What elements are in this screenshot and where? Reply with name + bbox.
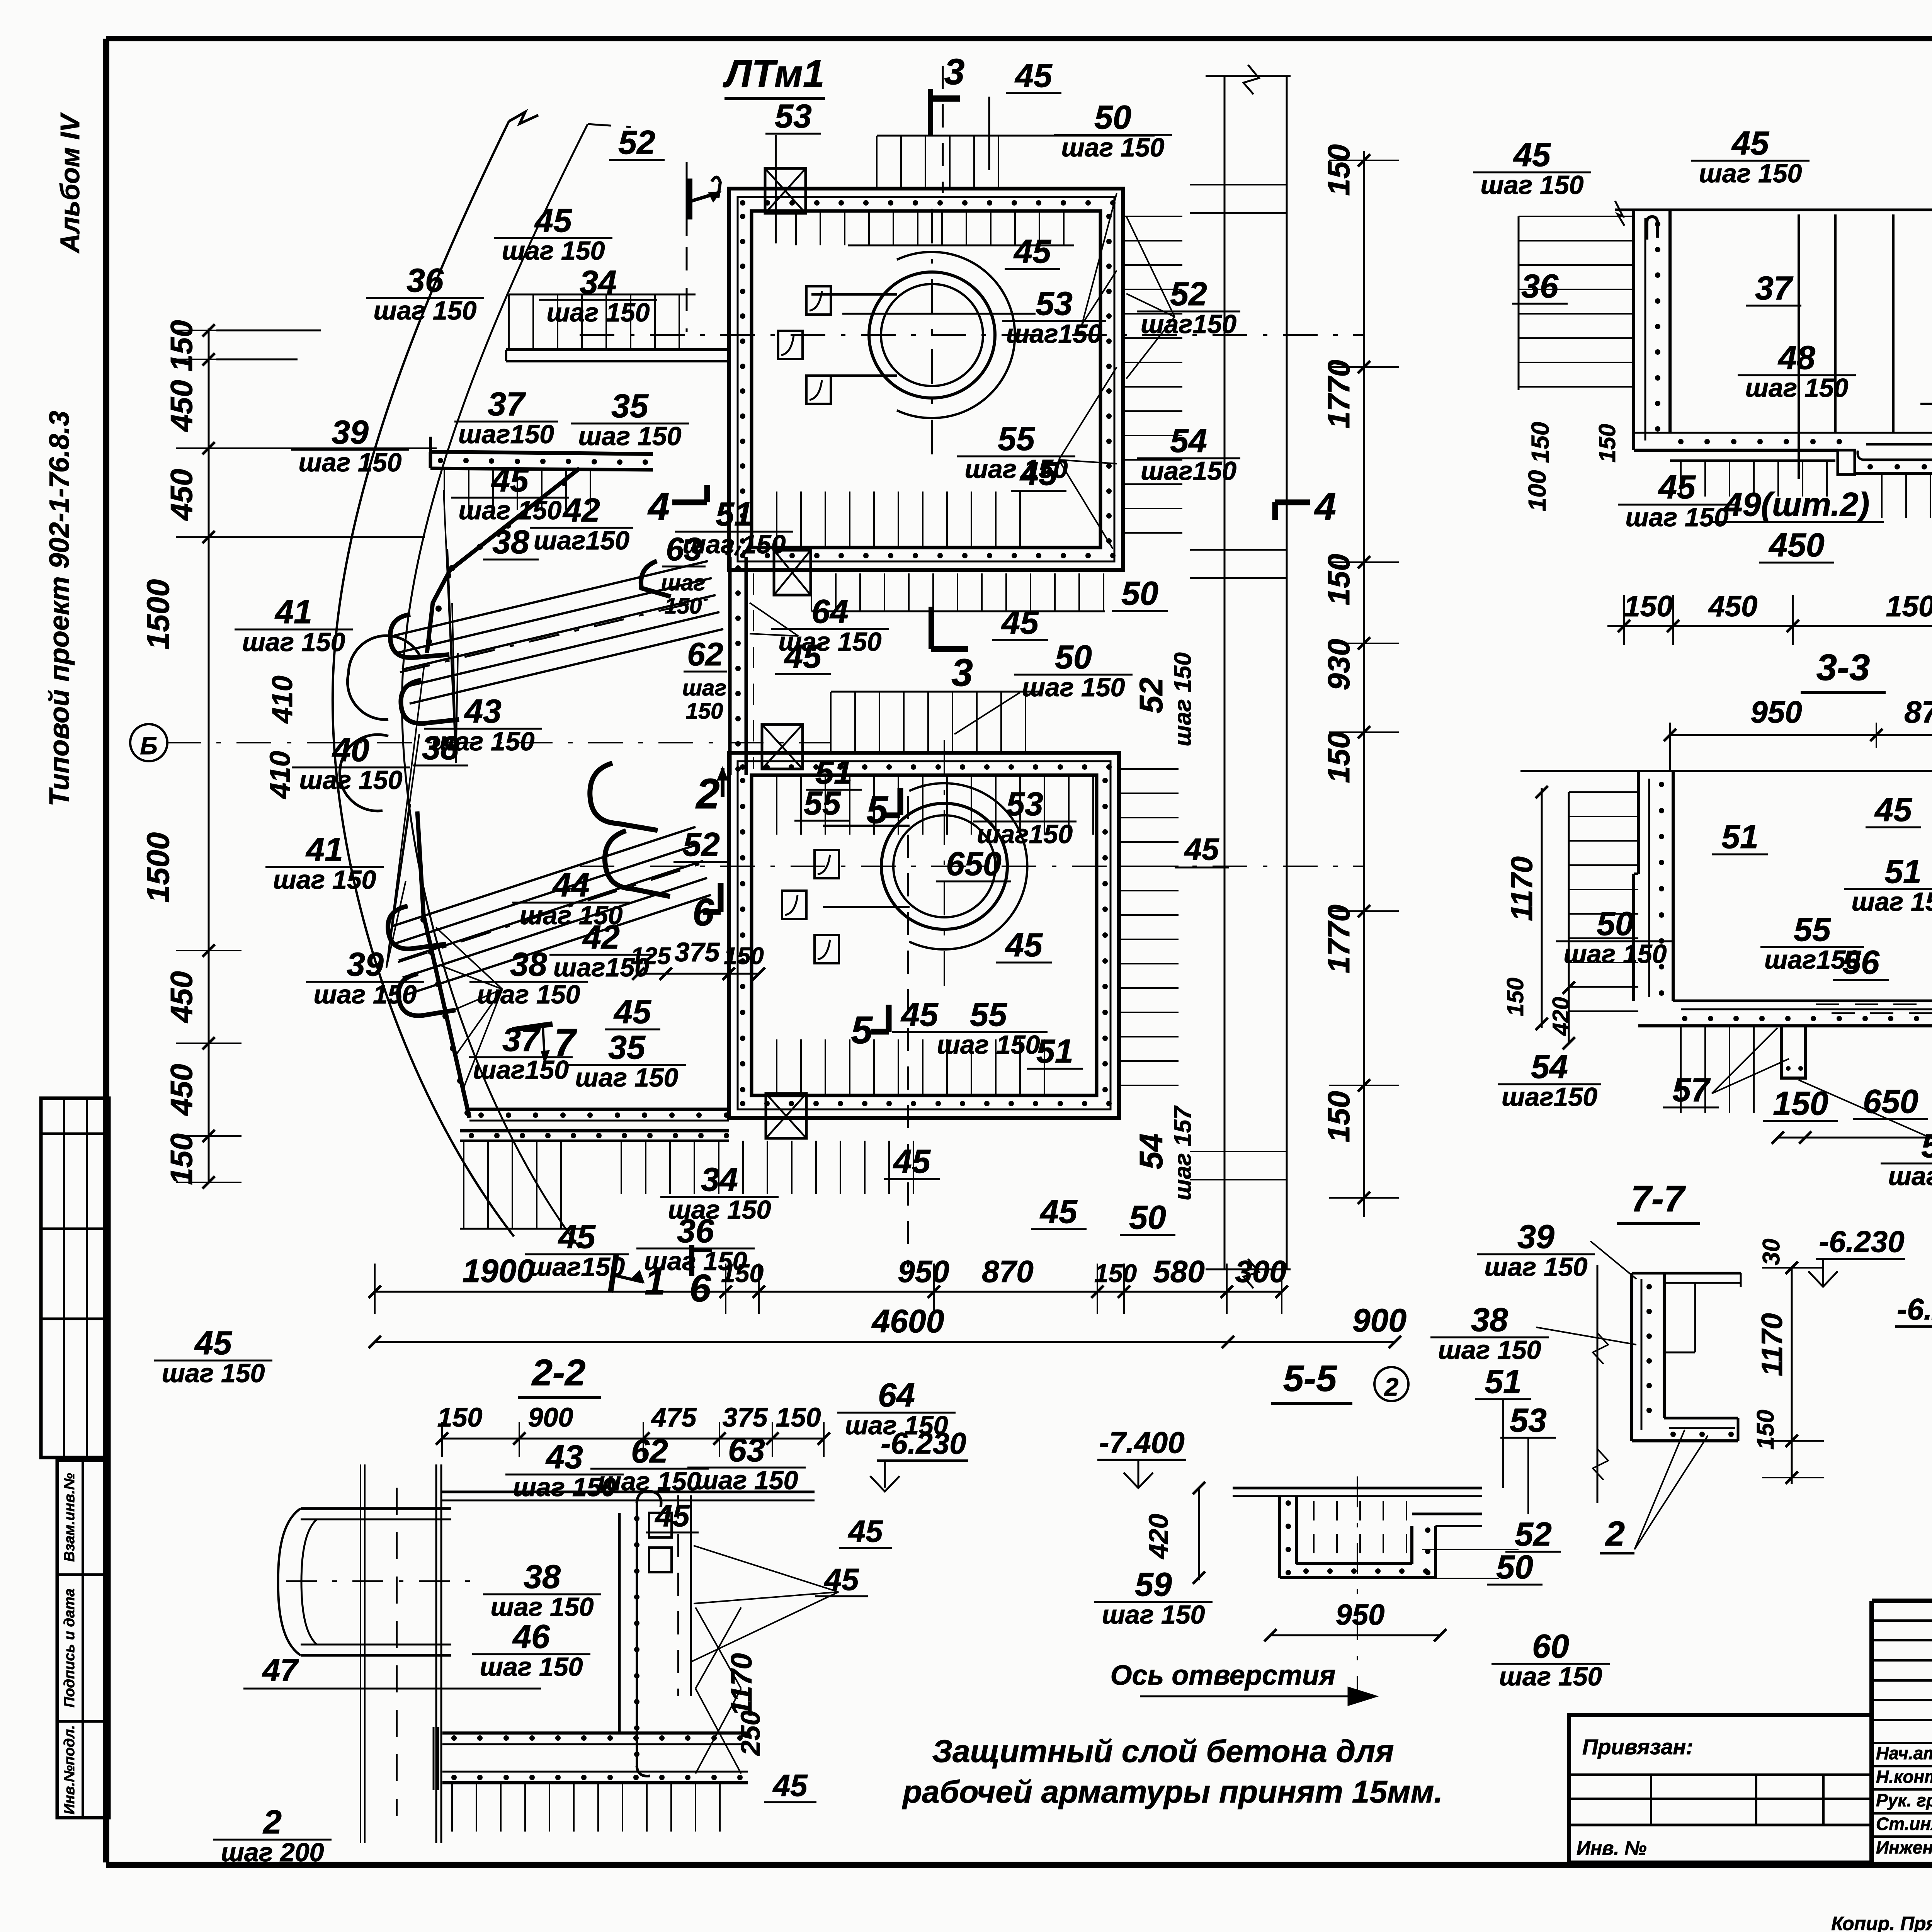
3-3 top dims: [1664, 695, 1932, 771]
1-1 floor rebar dots: [1678, 439, 1932, 444]
svg-text:шаг 150: шаг 150: [299, 765, 403, 795]
2-2 bottom slab: [434, 1727, 748, 1790]
svg-text:950: 950: [898, 1254, 949, 1289]
leader fan 39: [386, 665, 424, 968]
svg-text:58: 58: [1921, 1128, 1932, 1165]
section flag 4 right: [1275, 485, 1336, 528]
3-3 wall top step: [1634, 874, 1638, 1001]
axis Б: [130, 724, 831, 761]
svg-text:1900: 1900: [463, 1253, 535, 1289]
svg-text:39: 39: [347, 946, 384, 983]
lower box inner wall face: [752, 775, 1097, 1095]
svg-text:шаг: шаг: [682, 675, 727, 701]
comb below bottom band left: [460, 1141, 583, 1229]
svg-text:шаг 150: шаг 150: [937, 1030, 1040, 1060]
5-5 leader lines: [1422, 1399, 1528, 1578]
2-2 bottom comb: [451, 1783, 453, 1832]
svg-text:45: 45: [1013, 233, 1051, 270]
svg-text:45: 45: [1014, 57, 1053, 94]
svg-text:52: 52: [1133, 677, 1169, 713]
svg-text:4600: 4600: [871, 1303, 944, 1339]
lower ramp slab lines: [391, 827, 711, 995]
svg-text:шаг 150: шаг 150: [314, 980, 417, 1009]
svg-text:375: 375: [723, 1402, 768, 1432]
section flag 1 bottom: [611, 1254, 665, 1303]
stepped wall with rebar dots upper: [426, 468, 580, 653]
svg-text:рабочей арматуры принят 15мм.: рабочей арматуры принят 15мм.: [902, 1774, 1443, 1810]
svg-text:Рук. гр.: Рук. гр.: [1876, 1790, 1932, 1810]
svg-text:49(шт.2): 49(шт.2): [1723, 486, 1869, 523]
svg-text:150: 150: [164, 1133, 199, 1185]
upper box wall rebar dots: [740, 200, 1116, 558]
svg-text:-6.230: -6.230: [1897, 1292, 1932, 1326]
svg-text:5: 5: [851, 1009, 873, 1052]
svg-text:150: 150: [665, 594, 702, 619]
svg-text:4: 4: [1314, 485, 1336, 528]
svg-text:410: 410: [266, 675, 298, 724]
svg-text:45: 45: [1731, 125, 1769, 162]
svg-text:52: 52: [1170, 276, 1207, 313]
svg-text:43: 43: [545, 1439, 583, 1476]
1-1 centre deepened slab: [1855, 444, 1932, 473]
1-1 floor slab: [1634, 433, 1932, 461]
6-6 level mark: [1895, 1292, 1932, 1364]
horizontal helper line at 150: [216, 330, 321, 332]
leader fan 53 upper: [1082, 193, 1117, 325]
2-2 wall cross braces: [696, 1607, 741, 1774]
upper ramp hook rebars: [390, 614, 449, 658]
7-7 level mark: [1808, 1225, 1905, 1287]
svg-text:шаг 150: шаг 150: [1102, 1600, 1205, 1629]
svg-text:50: 50: [1597, 905, 1634, 942]
section flag 7 plan: [512, 1021, 577, 1064]
svg-text:150: 150: [1321, 1091, 1356, 1142]
stringer hook rebar B: [605, 831, 670, 896]
svg-text:450: 450: [1708, 590, 1758, 623]
svg-text:870: 870: [982, 1254, 1033, 1289]
svg-text:150: 150: [1321, 731, 1356, 783]
left wall continuation: [726, 546, 749, 775]
top-left wall band upper: [506, 350, 729, 361]
svg-text:шаг 150: шаг 150: [374, 296, 477, 325]
svg-text:шаг 150: шаг 150: [1626, 503, 1729, 532]
svg-text:1: 1: [645, 1261, 665, 1303]
svg-text:48: 48: [1777, 339, 1815, 376]
comb below bottom band right: [621, 1141, 622, 1194]
svg-text:41: 41: [305, 831, 343, 868]
upper ramp slab lines: [394, 561, 723, 704]
svg-text:шаг 150: шаг 150: [299, 448, 402, 477]
svg-text:шаг 150: шаг 150: [1499, 1662, 1602, 1691]
right vertical dimension line A: [1225, 76, 1287, 1269]
plan bottom dimension row 1: [369, 1264, 1288, 1314]
curve top break mark: [509, 112, 538, 124]
7-7 mark 2: [1600, 1430, 1708, 1553]
svg-text:57: 57: [1672, 1071, 1711, 1109]
svg-text:Защитный слой бетона для: Защитный слой бетона для: [932, 1734, 1394, 1769]
svg-text:шаг 150: шаг 150: [1564, 939, 1667, 969]
svg-text:шаг 150: шаг 150: [459, 496, 562, 525]
3-3 leader 57: [1712, 1059, 1789, 1094]
embedded plate 2: [778, 331, 803, 359]
leader fan 38 lower: [436, 927, 502, 989]
svg-text:150: 150: [1773, 1085, 1828, 1122]
svg-text:45: 45: [824, 1562, 859, 1597]
svg-text:50: 50: [1055, 639, 1092, 676]
svg-text:900: 900: [528, 1402, 573, 1432]
svg-text:-6.230: -6.230: [881, 1426, 966, 1460]
svg-text:50: 50: [1496, 1549, 1533, 1586]
svg-text:60: 60: [1532, 1628, 1569, 1665]
svg-text:шаг 150: шаг 150: [578, 422, 682, 451]
embedded plate 1: [806, 286, 831, 315]
svg-text:1170: 1170: [725, 1653, 758, 1716]
svg-text:шаг 150: шаг 150: [1061, 133, 1165, 162]
leader fan 55 upper: [1059, 367, 1117, 460]
svg-text:36: 36: [1521, 268, 1559, 305]
svg-text:52: 52: [618, 124, 655, 161]
svg-text:150: 150: [1502, 978, 1528, 1016]
section 5-5 title: [1271, 1358, 1352, 1403]
svg-text:-7.400: -7.400: [1099, 1425, 1184, 1459]
svg-text:Ст.инж.: Ст.инж.: [1876, 1814, 1932, 1834]
svg-text:475: 475: [651, 1402, 697, 1432]
title block grid: [1872, 1601, 1932, 1862]
svg-text:150: 150: [1594, 424, 1620, 463]
embedded plate 6: [815, 935, 839, 963]
embedded plate 3: [806, 376, 831, 404]
svg-text:45: 45: [1001, 604, 1039, 641]
svg-text:шаг 150: шаг 150: [668, 1195, 771, 1225]
svg-text:450: 450: [164, 469, 199, 521]
svg-text:шаг 150: шаг 150: [273, 865, 376, 895]
svg-text:1170: 1170: [1505, 856, 1539, 921]
svg-text:Привязан:: Привязан:: [1582, 1735, 1693, 1759]
3-3 leader V 58: [1799, 1080, 1932, 1142]
svg-text:35: 35: [608, 1029, 646, 1066]
bracket hook D: [641, 561, 671, 597]
section 3-3 title: [1801, 647, 1886, 692]
svg-text:2-2: 2-2: [531, 1352, 586, 1393]
svg-text:410: 410: [264, 751, 296, 799]
leader fan 52 upper: [1126, 216, 1175, 317]
svg-text:45: 45: [194, 1325, 232, 1362]
column cross square 4: [766, 1094, 806, 1138]
svg-text:150: 150: [1321, 144, 1356, 196]
signature stamp box: [57, 1460, 109, 1818]
svg-text:3-3: 3-3: [1816, 647, 1870, 688]
3-3 left comb: [1569, 792, 1638, 1024]
svg-text:62: 62: [687, 636, 723, 672]
svg-text:30: 30: [1758, 1239, 1785, 1265]
svg-text:шаг 150: шаг 150: [1022, 673, 1125, 702]
svg-text:шаг: шаг: [661, 570, 706, 595]
svg-text:Нач.атд.: Нач.атд.: [1876, 1743, 1932, 1763]
svg-text:Н.контр.: Н.контр.: [1876, 1767, 1932, 1787]
left vertical dimension chain: [176, 324, 241, 1189]
svg-text:шаг150: шаг150: [1006, 319, 1102, 349]
5-5 top slab lines: [1233, 1488, 1482, 1496]
svg-text:46: 46: [512, 1618, 550, 1655]
svg-text:шаг150: шаг150: [458, 420, 554, 449]
svg-text:35: 35: [611, 388, 649, 425]
plan bottom dimension row 2: [369, 1336, 1401, 1348]
upper surround ledge lines: [811, 293, 897, 296]
5-5 trough hatch dashes: [1314, 1501, 1406, 1561]
svg-text:54: 54: [1133, 1133, 1169, 1169]
svg-text:38: 38: [1471, 1301, 1508, 1338]
svg-text:шаг 150: шаг 150: [162, 1359, 265, 1388]
svg-text:42: 42: [562, 492, 600, 529]
svg-text:150: 150: [724, 943, 764, 969]
svg-text:Б: Б: [140, 732, 157, 760]
1-1 break marks: [1615, 201, 1624, 226]
svg-text:шаг150: шаг150: [1141, 310, 1236, 339]
svg-text:55: 55: [998, 420, 1035, 457]
svg-text:50: 50: [1129, 1199, 1166, 1236]
svg-text:1500: 1500: [1886, 590, 1932, 623]
leader fan 38 upper: [444, 490, 456, 763]
upper opening circle: [869, 272, 995, 398]
2-2 hole sleeve verticals: [361, 1464, 441, 1843]
section flag 3 mid: [931, 607, 973, 694]
svg-text:45: 45: [1658, 469, 1696, 506]
svg-text:шаг 150: шаг 150: [477, 980, 580, 1009]
3-3 bottom comb: [1680, 1026, 1682, 1113]
1-1 rebar 46 line: [1920, 403, 1932, 405]
svg-text:64: 64: [878, 1377, 915, 1414]
svg-text:100: 100: [1523, 470, 1551, 512]
svg-text:52: 52: [683, 826, 720, 863]
svg-text:41: 41: [274, 594, 312, 631]
svg-text:950: 950: [1750, 695, 1802, 729]
comb above upper box: [877, 136, 1155, 189]
svg-text:шаг150: шаг150: [977, 820, 1073, 849]
embedded plate 4: [815, 850, 839, 878]
lower surround ledge lines: [823, 825, 910, 827]
svg-text:3: 3: [951, 651, 973, 694]
1-1 left exterior comb: [1519, 216, 1634, 390]
comb below lower band: [444, 470, 445, 510]
revision stamp box: [41, 1098, 109, 1458]
svg-text:36: 36: [406, 262, 444, 299]
svg-text:45: 45: [1005, 927, 1043, 964]
svg-text:55: 55: [804, 785, 841, 822]
svg-text:63: 63: [666, 531, 702, 567]
stringer hook rebar A: [590, 763, 658, 830]
svg-text:шаг 150: шаг 150: [502, 236, 605, 265]
comb above top-left band: [509, 294, 696, 350]
upper box outer wall: [729, 189, 1123, 570]
leader 64: [750, 603, 798, 636]
svg-text:1500: 1500: [141, 579, 176, 650]
52 leader vertical: [686, 162, 688, 236]
7-7 slab: [1632, 1418, 1738, 1441]
section 2-2 title: [518, 1352, 601, 1398]
5-5 dim 420: [1143, 1482, 1205, 1584]
2-2 top dim chain: [436, 1422, 830, 1457]
svg-text:45: 45: [655, 1498, 690, 1533]
2-2 label 47: [243, 1653, 541, 1689]
svg-text:шаг 150: шаг 150: [1699, 159, 1802, 188]
privyazan box: [1569, 1715, 1872, 1862]
svg-text:2: 2: [695, 770, 719, 818]
column cross square 1: [765, 168, 806, 213]
svg-text:55: 55: [1794, 911, 1831, 948]
svg-text:62: 62: [631, 1433, 668, 1470]
svg-text:6: 6: [689, 1267, 711, 1310]
3-3 keys: [1781, 1026, 1932, 1078]
svg-text:38: 38: [510, 946, 547, 983]
svg-text:38: 38: [492, 524, 529, 561]
3-3 dim line below keys: [1772, 1131, 1932, 1144]
svg-text:53: 53: [1510, 1402, 1547, 1439]
upper box inner wall face: [752, 211, 1100, 548]
1-1 left wall: [1634, 210, 1670, 450]
5-5 axis label: [1111, 1476, 1376, 1705]
vertical centerline upper circle: [931, 209, 933, 468]
lower box wall rebar dots: [740, 764, 1112, 1106]
top-left wall band lower: [430, 437, 653, 470]
callout 62 stacked: [682, 636, 727, 724]
bottom band extension upper: [469, 1109, 729, 1121]
svg-text:шаг 200: шаг 200: [221, 1838, 324, 1867]
svg-text:55: 55: [970, 996, 1007, 1033]
svg-text:6: 6: [692, 891, 714, 934]
svg-text:150: 150: [1321, 554, 1356, 605]
svg-text:45: 45: [491, 462, 529, 499]
svg-text:52: 52: [1515, 1516, 1552, 1553]
svg-text:Подпись и дата: Подпись и дата: [61, 1588, 78, 1708]
svg-text:шаг150: шаг150: [1141, 456, 1236, 486]
svg-text:шаг 150: шаг 150: [1481, 170, 1584, 200]
svg-text:64: 64: [811, 593, 849, 630]
7-7 wall: [1632, 1273, 1673, 1441]
stepped wall lower diagonal: [417, 811, 471, 1118]
svg-text:Инв.№подл.: Инв.№подл.: [61, 1725, 78, 1814]
svg-text:39: 39: [1517, 1218, 1554, 1255]
upper box interior line 45: [842, 313, 1036, 315]
svg-text:950: 950: [1336, 1599, 1385, 1631]
3-3 floor slab: [1638, 1001, 1932, 1026]
svg-text:50: 50: [1121, 575, 1158, 612]
svg-text:150: 150: [164, 320, 199, 371]
svg-text:150: 150: [437, 1402, 483, 1432]
lower opening circle: [881, 803, 1007, 929]
svg-text:45: 45: [900, 996, 939, 1033]
svg-text:650: 650: [946, 845, 1002, 883]
svg-text:шаг 150: шаг 150: [1485, 1252, 1588, 1282]
svg-text:150: 150: [686, 699, 723, 724]
svg-text:45: 45: [613, 993, 651, 1031]
comb lower box interior top: [776, 775, 777, 835]
section flag 2 left: [695, 768, 727, 818]
column cross square 2: [774, 550, 811, 595]
svg-text:54: 54: [1531, 1048, 1568, 1085]
1-1 wall top hooks: [1647, 217, 1657, 240]
3-3 left wall: [1638, 771, 1673, 1001]
svg-text:1500: 1500: [141, 832, 176, 903]
svg-text:2: 2: [1605, 1515, 1625, 1553]
2-2 wall: [619, 1491, 691, 1776]
column cross square 3: [762, 724, 803, 769]
lower ramp hook rebars: [388, 906, 446, 949]
comb upper box interior bottom: [776, 492, 777, 548]
2-2 pipe: [278, 1509, 475, 1655]
svg-text:1170: 1170: [1756, 1313, 1789, 1376]
svg-text:51: 51: [716, 496, 753, 533]
section 7-7 title: [1617, 1178, 1700, 1224]
svg-text:1770: 1770: [1321, 905, 1356, 973]
svg-text:51: 51: [1884, 853, 1922, 890]
svg-text:2: 2: [1384, 1372, 1399, 1401]
svg-text:1770: 1770: [1321, 360, 1356, 429]
svg-text:45: 45: [534, 202, 572, 239]
leader 50 lower: [954, 692, 1020, 734]
2-2 anchor squares: [649, 1513, 672, 1572]
svg-text:450: 450: [164, 380, 199, 432]
svg-text:53: 53: [775, 98, 812, 135]
5-5 level mark -7.400: [1097, 1425, 1186, 1488]
svg-text:53: 53: [1036, 285, 1073, 322]
svg-text:шаг150: шаг150: [534, 526, 629, 555]
svg-text:45: 45: [848, 1514, 883, 1548]
svg-text:580: 580: [1153, 1254, 1204, 1289]
svg-text:51: 51: [1036, 1033, 1073, 1070]
svg-text:37: 37: [488, 386, 526, 423]
svg-text:Ось отверстия: Ось отверстия: [1111, 1660, 1336, 1691]
5-5 circled 2: [1374, 1367, 1408, 1401]
inner curved wall line: [402, 124, 588, 1248]
svg-text:5-5: 5-5: [1283, 1358, 1337, 1399]
callout 63 stacked: [661, 531, 706, 619]
svg-text:шаг150: шаг150: [1502, 1082, 1597, 1112]
svg-text:51: 51: [1485, 1363, 1522, 1400]
svg-text:650: 650: [1863, 1083, 1918, 1120]
svg-text:375: 375: [675, 937, 720, 967]
dims 125 375 150: [631, 937, 765, 980]
svg-text:930: 930: [1321, 639, 1356, 690]
svg-text:56: 56: [1842, 944, 1880, 981]
7-7 right dim line: [1762, 1262, 1824, 1484]
svg-text:34: 34: [701, 1161, 738, 1198]
svg-text:37: 37: [1755, 270, 1794, 307]
svg-text:45: 45: [784, 638, 822, 675]
3-3 center trench dashes: [1816, 1004, 1932, 1013]
1-1 interior wall edges: [1799, 214, 1932, 479]
section cut line 3: [942, 66, 944, 193]
svg-text:5: 5: [866, 788, 888, 832]
2-2 top slab: [442, 1492, 815, 1500]
svg-text:7-7: 7-7: [1631, 1178, 1686, 1219]
svg-text:шаг 150: шаг 150: [491, 1592, 594, 1622]
svg-text:39: 39: [332, 414, 369, 451]
svg-text:Типовой проект 902-1-76.8.3: Типовой проект 902-1-76.8.3: [44, 411, 75, 806]
upper opening surround arc: [897, 252, 1015, 418]
dashed axis between boxes: [753, 573, 754, 769]
svg-text:150: 150: [776, 1402, 821, 1432]
1-1 bottom combs: [1680, 461, 1682, 497]
svg-text:45: 45: [893, 1143, 931, 1180]
centerline axis upper box: [580, 334, 1364, 336]
svg-text:7: 7: [554, 1021, 577, 1064]
ladder rungs: [1190, 185, 1287, 1180]
svg-text:420: 420: [1143, 1514, 1173, 1560]
section flag 4 left: [647, 485, 707, 528]
comb right of lower box: [1119, 768, 1179, 770]
svg-text:450: 450: [1768, 527, 1825, 564]
svg-text:шаг 150: шаг 150: [575, 1063, 679, 1092]
